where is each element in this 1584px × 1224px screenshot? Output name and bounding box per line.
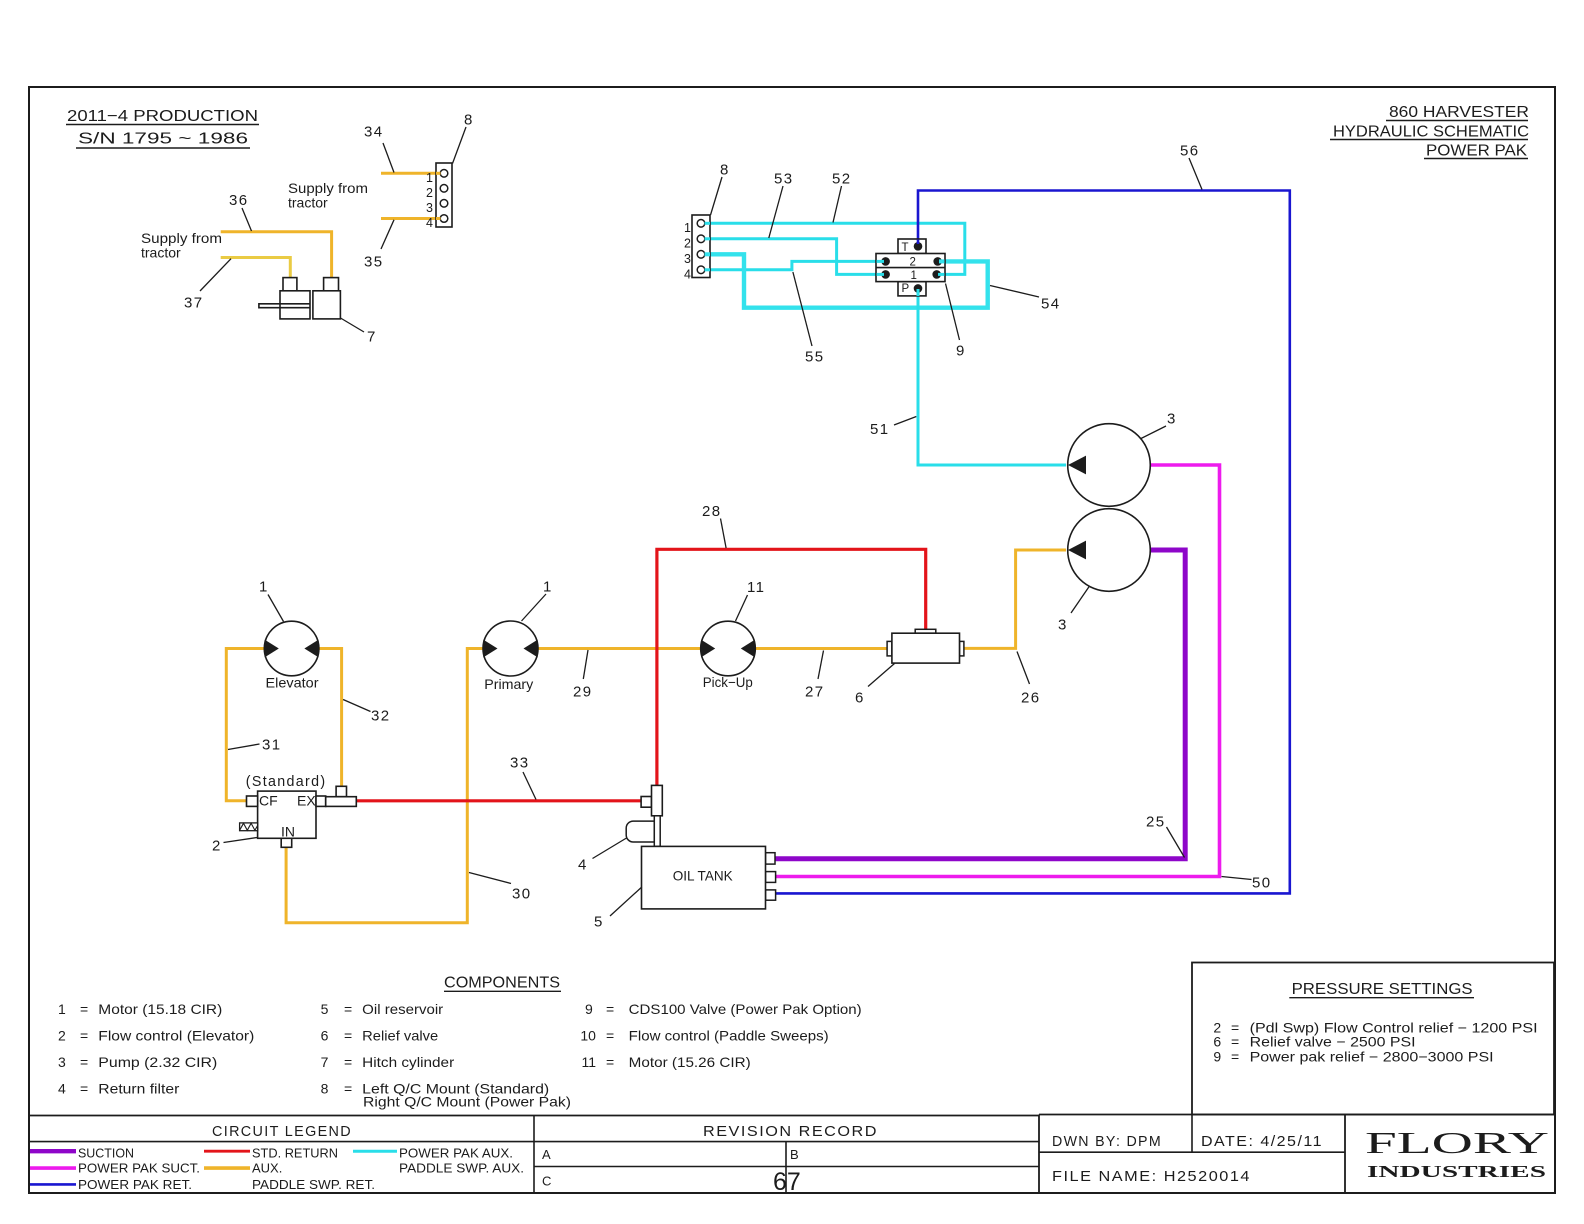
svg-text:6: 6	[321, 1028, 329, 1044]
svg-text:PRESSURE SETTINGS: PRESSURE SETTINGS	[1292, 981, 1473, 998]
label 26	[1017, 652, 1041, 707]
svg-text:A: A	[542, 1147, 551, 1162]
svg-text:POWER PAK SUCT.: POWER PAK SUCT.	[78, 1161, 200, 1176]
label 1 (elevator)	[259, 579, 284, 622]
svg-text:2: 2	[212, 838, 222, 855]
svg-text:EX: EX	[297, 793, 316, 809]
motor 11 Pick-Up (15.26 CIR)	[701, 621, 756, 690]
svg-text:2: 2	[910, 257, 916, 269]
svg-text:32: 32	[371, 708, 391, 725]
note 2011-4 PRODUCTION	[66, 108, 259, 148]
svg-text:Flow control (Elevator): Flow control (Elevator)	[98, 1028, 254, 1044]
legend swatch power pak ret	[30, 1183, 76, 1186]
label 52	[832, 171, 852, 223]
svg-text:Hitch cylinder: Hitch cylinder	[362, 1054, 454, 1070]
pressure settings box	[1192, 963, 1554, 1115]
svg-text:POWER PAK AUX.: POWER PAK AUX.	[399, 1146, 513, 1161]
svg-text:1: 1	[426, 171, 433, 185]
svg-text:860 HARVESTER: 860 HARVESTER	[1389, 104, 1529, 121]
pump 3 (upper, 2.32 CIR)	[1068, 424, 1151, 507]
svg-text:=: =	[344, 1001, 352, 1017]
label 51	[870, 417, 916, 439]
svg-text:POWER PAK RET.: POWER PAK RET.	[78, 1177, 192, 1192]
svg-text:Primary: Primary	[484, 676, 533, 692]
label 32	[343, 700, 390, 725]
svg-text:9: 9	[956, 343, 966, 360]
svg-text:56: 56	[1180, 143, 1200, 160]
svg-text:51: 51	[870, 421, 890, 438]
svg-text:54: 54	[1041, 296, 1061, 313]
svg-text:Relief valve − 2500 PSI: Relief valve − 2500 PSI	[1250, 1033, 1416, 1049]
valve 9 CDS100	[876, 239, 945, 296]
label 56	[1180, 143, 1202, 190]
svg-text:CIRCUIT LEGEND: CIRCUIT LEGEND	[212, 1123, 352, 1140]
components legend	[58, 975, 862, 1110]
svg-text:Elevator: Elevator	[266, 675, 319, 691]
connector 8 right Q/C mount (power pak)	[684, 215, 710, 282]
svg-text:34: 34	[364, 124, 384, 141]
wire 27 aux (pick-up motor to relief valve)	[755, 647, 887, 650]
svg-text:=: =	[1231, 1033, 1239, 1049]
tee fitting above oil tank	[641, 785, 662, 815]
svg-text:CDS100 Valve (Power Pak Op: CDS100 Valve (Power Pak Option)	[629, 1001, 862, 1017]
svg-text:=: =	[606, 1054, 614, 1070]
svg-text:53: 53	[774, 171, 794, 188]
legend swatch aux	[204, 1166, 250, 1170]
svg-text:PADDLE SWP. RET.: PADDLE SWP. RET.	[252, 1177, 375, 1192]
svg-text:Pump (2.32 CIR): Pump (2.32 CIR)	[98, 1054, 217, 1070]
label 33	[510, 755, 536, 800]
svg-text:3: 3	[58, 1054, 66, 1070]
oil tank 5	[642, 846, 776, 909]
svg-text:25: 25	[1146, 814, 1166, 831]
svg-text:29: 29	[573, 684, 593, 701]
svg-text:30: 30	[512, 886, 532, 903]
svg-text:P: P	[902, 283, 910, 295]
label 1 (primary)	[522, 579, 553, 622]
wire power pak suction (pump 3 upper to oil tank) magenta	[774, 465, 1220, 877]
svg-text:Right Q/C Mount (Power Pak: Right Q/C Mount (Power Pak)	[363, 1094, 571, 1110]
svg-text:6: 6	[1213, 1033, 1221, 1049]
label 29	[573, 650, 593, 701]
svg-text:=: =	[344, 1054, 352, 1070]
label 7	[341, 318, 377, 346]
wire stubs into valve ports	[877, 260, 885, 263]
svg-text:=: =	[80, 1080, 88, 1096]
svg-text:26: 26	[1021, 690, 1041, 707]
motor 1 Primary (15.18 CIR)	[483, 621, 538, 692]
svg-text:=: =	[80, 1054, 88, 1070]
svg-text:31: 31	[262, 737, 282, 754]
svg-text:4: 4	[426, 216, 433, 230]
svg-text:2: 2	[426, 186, 433, 200]
svg-text:Relief valve: Relief valve	[362, 1028, 438, 1044]
flow control 2 (elevator, standard)	[240, 773, 327, 847]
svg-text:=: =	[80, 1028, 88, 1044]
svg-text:AUX.: AUX.	[252, 1161, 282, 1176]
svg-text:9: 9	[1213, 1049, 1221, 1065]
svg-text:B: B	[790, 1147, 799, 1162]
svg-text:55: 55	[805, 349, 825, 366]
svg-text:IN: IN	[281, 824, 295, 840]
wire 52 power pak aux (pin 1 to valve port 1 right)	[710, 223, 965, 274]
svg-text:=: =	[344, 1028, 352, 1044]
label 9	[946, 284, 966, 360]
svg-text:6: 6	[855, 690, 865, 707]
svg-text:3: 3	[1058, 617, 1068, 634]
svg-text:9: 9	[585, 1001, 593, 1017]
svg-text:3: 3	[1167, 411, 1177, 428]
svg-text:1: 1	[911, 270, 917, 282]
svg-text:SUCTION: SUCTION	[78, 1146, 134, 1161]
svg-text:HYDRAULIC SCHEMATIC: HYDRAULIC SCHEMATIC	[1333, 124, 1529, 141]
label 3 (upper pump)	[1141, 411, 1177, 439]
svg-text:S/N 1795 ~ 1986: S/N 1795 ~ 1986	[78, 131, 248, 148]
hitch cylinder 7	[259, 278, 341, 319]
svg-text:OIL TANK: OIL TANK	[673, 867, 734, 883]
label 35	[364, 220, 394, 271]
svg-text:=: =	[80, 1001, 88, 1017]
svg-text:37: 37	[184, 295, 204, 312]
svg-text:T: T	[902, 242, 909, 254]
svg-text:8: 8	[321, 1080, 329, 1096]
svg-text:36: 36	[229, 192, 249, 209]
legend swatch std return	[204, 1150, 250, 1153]
svg-text:Power pak relief − 2800−30: Power pak relief − 2800−3000 PSI	[1250, 1049, 1494, 1065]
relief valve 6	[887, 629, 964, 663]
wire 36 (aux supply to hitch cylinder right port)	[221, 232, 332, 278]
wire 54 paddle swp aux (pin 3 to valve port 2 right)	[710, 254, 988, 307]
wire 35 (aux supply to pin 4)	[381, 217, 436, 220]
wire 26 aux (relief valve to pump 3 lower)	[964, 550, 1066, 648]
svg-text:1: 1	[684, 221, 691, 235]
label 53	[769, 171, 794, 239]
svg-text:FILE NAME: H2520014: FILE NAME: H2520014	[1052, 1168, 1251, 1185]
svg-text:PADDLE SWP. AUX.: PADDLE SWP. AUX.	[399, 1161, 524, 1176]
svg-text:4: 4	[578, 857, 588, 874]
label 27	[805, 651, 825, 701]
wire 29 aux (primary motor to pick-up motor)	[538, 647, 701, 650]
legend swatch power pak suct	[30, 1166, 76, 1170]
legend swatch power pak aux	[353, 1150, 397, 1153]
svg-text:4: 4	[58, 1080, 66, 1096]
return filter 4	[626, 821, 654, 842]
note Supply from tractor (upper)	[288, 180, 368, 211]
svg-text:Flow control (Paddle Sweeps: Flow control (Paddle Sweeps)	[629, 1028, 829, 1044]
svg-text:POWER PAK: POWER PAK	[1426, 143, 1527, 160]
label 11 (pick-up)	[736, 579, 766, 621]
svg-text:Motor (15.18 CIR): Motor (15.18 CIR)	[98, 1001, 222, 1017]
legend swatch suction	[30, 1149, 76, 1153]
svg-text:=: =	[344, 1080, 352, 1096]
motor 1 Elevator (15.18 CIR)	[264, 621, 319, 690]
label 37	[184, 259, 231, 312]
wire 34 (aux supply to pin 1)	[381, 172, 436, 175]
circuit legend cell	[212, 1123, 352, 1140]
svg-text:11: 11	[747, 579, 765, 596]
svg-text:2: 2	[684, 237, 691, 251]
label 3 (lower pump)	[1058, 586, 1090, 634]
svg-text:52: 52	[832, 171, 852, 188]
note Supply from tractor (lower)	[141, 230, 222, 261]
label 25	[1146, 814, 1185, 858]
svg-text:1: 1	[543, 579, 553, 596]
svg-text:FLORY: FLORY	[1365, 1125, 1549, 1160]
label 2	[212, 838, 257, 855]
pump 3 (lower, 2.32 CIR)	[1068, 509, 1151, 592]
svg-text:7: 7	[321, 1054, 329, 1070]
label 28	[702, 503, 726, 548]
svg-text:tractor: tractor	[288, 195, 328, 211]
svg-text:3: 3	[684, 252, 691, 266]
svg-text:28: 28	[702, 503, 722, 520]
label 30	[469, 873, 532, 903]
svg-text:8: 8	[720, 162, 730, 179]
svg-text:DATE: 4/25/11: DATE: 4/25/11	[1201, 1133, 1323, 1150]
svg-text:1: 1	[259, 579, 269, 596]
svg-text:CF: CF	[259, 793, 278, 809]
svg-text:50: 50	[1252, 875, 1272, 892]
wire 31 aux (elevator motor to flow control CF)	[226, 649, 264, 801]
svg-text:REVISION RECORD: REVISION RECORD	[703, 1123, 878, 1140]
svg-text:Pick−Up: Pick−Up	[703, 674, 753, 690]
label 31	[228, 737, 282, 754]
svg-text:STD. RETURN: STD. RETURN	[252, 1146, 338, 1161]
svg-text:5: 5	[321, 1001, 329, 1017]
title block grid	[29, 1115, 1555, 1194]
svg-text:=: =	[1231, 1049, 1239, 1065]
svg-text:3: 3	[426, 201, 433, 215]
label 36	[229, 192, 252, 231]
legend labels	[78, 1146, 524, 1192]
tee fitting at EX port	[326, 786, 357, 806]
svg-text:5: 5	[594, 914, 604, 931]
svg-text:INDUSTRIES: INDUSTRIES	[1367, 1162, 1546, 1181]
svg-text:=: =	[606, 1001, 614, 1017]
svg-text:Oil reservoir: Oil reservoir	[362, 1001, 443, 1017]
wire stubs into connector pins	[436, 172, 441, 175]
label 5	[594, 887, 642, 931]
label 34	[364, 124, 394, 173]
svg-text:7: 7	[367, 329, 377, 346]
svg-text:tractor: tractor	[141, 245, 181, 261]
label 8 (left Q/C mount)	[453, 112, 474, 164]
wire 37 (supply to hitch cylinder left port)	[221, 258, 291, 278]
svg-text:1: 1	[58, 1001, 66, 1017]
wire 32 aux (elevator motor to EX tee)	[319, 649, 342, 787]
wire 33 std return (EX tee to tank tee)	[356, 799, 641, 802]
wire stubs into connector pins	[705, 222, 711, 225]
wire 28 std return (tank tee to relief valve top)	[657, 549, 926, 785]
svg-text:27: 27	[805, 684, 825, 701]
svg-text:4: 4	[684, 268, 691, 282]
label 4	[578, 838, 627, 874]
svg-text:35: 35	[364, 254, 384, 271]
svg-text:Return filter: Return filter	[98, 1080, 179, 1096]
svg-text:(Standard): (Standard)	[246, 773, 327, 790]
connector 8 left Q/C mount (standard)	[426, 163, 452, 230]
svg-text:8: 8	[464, 112, 474, 129]
pipe from tee into tank	[654, 816, 660, 847]
label 55	[793, 272, 825, 366]
wire suction (pump 3 lower to oil tank) purple	[774, 550, 1186, 859]
svg-text:2011−4 PRODUCTION: 2011−4 PRODUCTION	[67, 108, 258, 125]
svg-text:67: 67	[773, 1168, 801, 1196]
label 8 (right Q/C mount)	[711, 162, 730, 216]
svg-text:COMPONENTS: COMPONENTS	[444, 975, 560, 992]
wire 56 power pak return (valve T to oil tank)	[774, 191, 1290, 894]
wire 30 aux (flow control IN to primary motor)	[286, 649, 483, 923]
wire 51 power pak aux (valve P to pump)	[918, 288, 1066, 465]
svg-text:11: 11	[582, 1054, 597, 1070]
wire 55 power pak aux (pin 4 to valve port 2 left)	[710, 261, 884, 269]
label 6	[855, 664, 895, 707]
svg-text:C: C	[542, 1174, 551, 1189]
label 54	[990, 286, 1061, 313]
svg-text:=: =	[606, 1028, 614, 1044]
wire 53 power pak aux (pin 2 to valve port 1 left)	[710, 239, 884, 275]
svg-text:2: 2	[58, 1028, 66, 1044]
title 860 HARVESTER HYDRAULIC SCHEMATIC POWER PAK	[1330, 104, 1529, 160]
svg-text:33: 33	[510, 755, 530, 772]
svg-text:10: 10	[580, 1028, 596, 1044]
FLORY INDUSTRIES logo	[1365, 1125, 1549, 1181]
svg-text:DWN BY: DPM: DWN BY: DPM	[1052, 1133, 1162, 1150]
svg-text:Motor (15.26 CIR): Motor (15.26 CIR)	[629, 1054, 751, 1070]
label 50	[1222, 875, 1272, 892]
revision record cell	[542, 1123, 878, 1189]
